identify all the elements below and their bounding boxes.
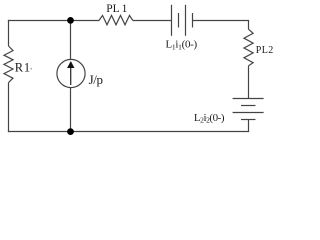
svg-text:L2i2(0-): L2i2(0-): [194, 112, 225, 125]
svg-text:R1: R1: [15, 60, 31, 74]
wire top left (node A to PL1): [8, 20, 99, 22]
label R1 stray dot: [31, 68, 32, 69]
battery V1 (L1i1 source): [172, 5, 193, 36]
wire middle branch upper: [70, 21, 72, 60]
current source arrow: [67, 61, 74, 85]
svg-text:J/p: J/p: [89, 72, 103, 87]
wire middle branch lower: [70, 88, 72, 133]
junction node bottom: [67, 128, 74, 135]
svg-text:PL2: PL2: [256, 45, 274, 56]
svg-text:L1i1(0-): L1i1(0-): [166, 39, 198, 52]
wire left vertical upper: [8, 20, 10, 46]
resistor PL2: [244, 29, 253, 66]
wire PL2 to battery V2: [248, 66, 250, 99]
battery V2 (L2i2 source): [233, 99, 264, 120]
svg-text:PL1: PL1: [106, 3, 127, 15]
wire V1 to top-right corner down to PL2: [193, 21, 249, 30]
wire bottom rail: [8, 131, 249, 133]
wire left vertical lower: [8, 83, 10, 133]
wire V2 down to bottom rail: [248, 120, 250, 132]
wire PL1 to battery V1: [133, 20, 172, 22]
resistor PL1: [99, 15, 133, 24]
resistor R1: [4, 46, 13, 83]
junction node top: [67, 17, 74, 24]
current source J/p circle: [57, 59, 85, 87]
